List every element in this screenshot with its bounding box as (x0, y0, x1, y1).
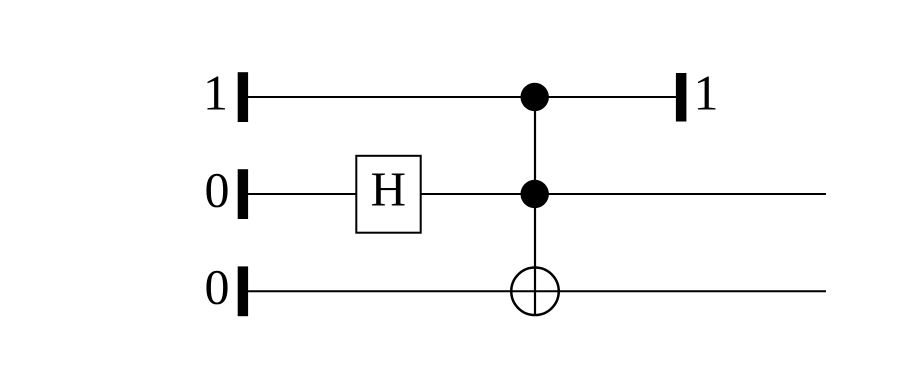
output terminator bar qubit 1 (676, 73, 687, 122)
Hadamard gate box H (356, 156, 420, 233)
svg-text:H: H (371, 161, 406, 216)
wire qubit 1 (248, 96, 676, 98)
svg-text:1: 1 (694, 65, 719, 121)
input terminator bar qubit 1 (238, 72, 248, 122)
svg-text:1: 1 (203, 65, 228, 121)
input terminator bar qubit 2 (238, 169, 248, 219)
vertical connector line (controls to target) (534, 97, 536, 316)
input terminator bar qubit 3 (238, 266, 248, 316)
svg-text:0: 0 (205, 161, 230, 217)
wire qubit 2 (248, 193, 826, 195)
CNOT target circle qubit 3 (511, 268, 559, 316)
control dot qubit 2 (521, 180, 549, 208)
control dot qubit 1 (521, 83, 549, 111)
svg-text:0: 0 (205, 259, 230, 315)
wire qubit 3 (248, 290, 826, 292)
